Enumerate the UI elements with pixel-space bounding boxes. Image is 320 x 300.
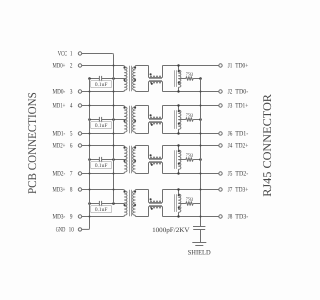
svg-text:2: 2 bbox=[70, 63, 73, 70]
svg-text:J6: J6 bbox=[228, 131, 233, 138]
svg-text:MD3+: MD3+ bbox=[53, 187, 66, 194]
svg-text:MD1-: MD1- bbox=[53, 131, 66, 138]
svg-text:6: 6 bbox=[70, 143, 73, 150]
svg-text:TD1+: TD1+ bbox=[235, 103, 248, 110]
svg-text:0.1uF: 0.1uF bbox=[95, 82, 108, 88]
svg-text:75Ω: 75Ω bbox=[186, 152, 194, 157]
svg-text:7: 7 bbox=[70, 171, 73, 178]
svg-text:J2: J2 bbox=[228, 89, 233, 96]
svg-text:GND: GND bbox=[56, 227, 66, 234]
svg-text:MD1+: MD1+ bbox=[53, 103, 66, 110]
svg-text:TD2+: TD2+ bbox=[235, 143, 248, 150]
svg-text:TD1-: TD1- bbox=[235, 131, 249, 138]
svg-text:MD2+: MD2+ bbox=[53, 143, 66, 150]
svg-text:J4: J4 bbox=[228, 143, 233, 150]
svg-text:TD3-: TD3- bbox=[235, 214, 249, 221]
svg-text:TD0-: TD0- bbox=[235, 89, 249, 96]
svg-text:TD3+: TD3+ bbox=[235, 187, 248, 194]
svg-text:MD2-: MD2- bbox=[53, 171, 66, 178]
svg-text:0.1uF: 0.1uF bbox=[95, 123, 108, 129]
svg-text:VCC: VCC bbox=[58, 51, 68, 58]
svg-text:3: 3 bbox=[70, 89, 73, 96]
svg-text:TD2-: TD2- bbox=[235, 171, 249, 178]
svg-text:J7: J7 bbox=[228, 187, 233, 194]
svg-text:0.1uF: 0.1uF bbox=[95, 207, 108, 213]
svg-text:MD0-: MD0- bbox=[53, 89, 66, 96]
svg-text:TD0+: TD0+ bbox=[235, 63, 248, 70]
svg-text:4: 4 bbox=[70, 103, 73, 110]
svg-text:RJ45 CONNECTOR: RJ45 CONNECTOR bbox=[260, 94, 274, 197]
svg-text:J5: J5 bbox=[228, 171, 233, 178]
svg-text:J1: J1 bbox=[228, 63, 233, 70]
svg-text:10: 10 bbox=[69, 227, 75, 234]
svg-text:J3: J3 bbox=[228, 103, 233, 110]
svg-text:SHIELD: SHIELD bbox=[188, 249, 211, 256]
svg-text:MD3-: MD3- bbox=[53, 214, 66, 221]
svg-text:75Ω: 75Ω bbox=[186, 112, 194, 117]
svg-text:PCB CONNECTIONS: PCB CONNECTIONS bbox=[25, 92, 39, 194]
svg-text:5: 5 bbox=[70, 131, 73, 138]
svg-text:J8: J8 bbox=[228, 214, 233, 221]
svg-text:75Ω: 75Ω bbox=[186, 71, 194, 76]
svg-text:8: 8 bbox=[70, 187, 73, 194]
svg-text:75Ω: 75Ω bbox=[186, 196, 194, 201]
svg-text:0.1uF: 0.1uF bbox=[95, 163, 108, 169]
svg-text:MD0+: MD0+ bbox=[53, 63, 66, 70]
svg-text:1: 1 bbox=[70, 51, 73, 58]
svg-text:9: 9 bbox=[70, 214, 73, 221]
svg-text:1000pF/2KV: 1000pF/2KV bbox=[152, 227, 190, 234]
